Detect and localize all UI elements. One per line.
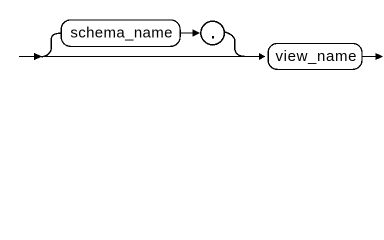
- node: schema_name bubble: [61, 20, 180, 47]
- label: period: [212, 36, 214, 39]
- wire: curve down from circle to main line: [224, 32, 245, 57]
- wire: schema bubble to dot circle: [180, 32, 193, 34]
- railroad syntax diagram: [schema_name .] view_name: [0, 0, 384, 79]
- svg-text:view_name: view_name: [276, 48, 358, 65]
- arrow: start arrowhead: [34, 53, 42, 61]
- arrow: before view_name bubble: [259, 53, 265, 60]
- arrow: before dot circle: [193, 29, 200, 36]
- svg-text:schema_name: schema_name: [70, 24, 172, 41]
- node: dot terminal circle: [201, 21, 225, 45]
- wire: exit line after view bubble: [362, 56, 376, 58]
- wire: main horizontal line: [19, 56, 260, 58]
- node: view_name bubble: [268, 44, 362, 70]
- arrow: final arrowhead: [376, 53, 384, 60]
- wire: branch up from main line to schema bubble: [42, 33, 62, 57]
